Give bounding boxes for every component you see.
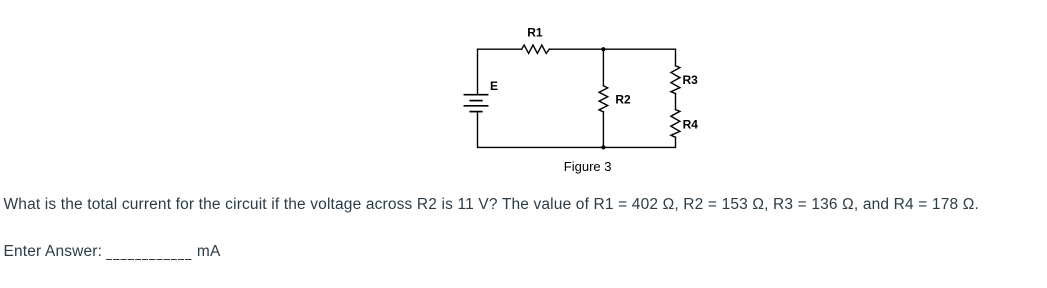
battery E <box>464 95 487 112</box>
node A junction dot <box>601 47 605 51</box>
wire R4 bottom to bottom-right corner to node B <box>603 137 675 147</box>
node B junction dot <box>601 145 605 149</box>
resistor R1 <box>522 45 550 53</box>
svg-text:R4: R4 <box>683 117 699 131</box>
resistor R3 <box>671 66 680 94</box>
wire R1 right terminal to node A <box>549 48 603 50</box>
answer blank line <box>106 259 192 261</box>
wire node A down to R2 top terminal <box>602 49 604 85</box>
svg-text:E: E <box>490 79 498 93</box>
svg-text:R2: R2 <box>615 93 631 107</box>
svg-text:R1: R1 <box>527 25 543 39</box>
question text <box>4 196 979 213</box>
wire battery - to bottom-left corner to node B <box>478 112 604 147</box>
resistor R4 <box>671 110 680 138</box>
wire node A to top-right corner <box>603 49 675 66</box>
wire R2 bottom terminal to node B <box>602 112 604 147</box>
answer unit mA <box>197 243 221 260</box>
circuit schematic figure <box>0 0 1047 185</box>
resistor R2 <box>599 86 608 112</box>
wire R3 bottom to R4 top <box>675 94 677 110</box>
svg-text:Figure 3: Figure 3 <box>564 159 612 174</box>
svg-text:R3: R3 <box>683 73 699 87</box>
wire top-left (battery + to R1 left terminal) <box>478 49 522 94</box>
answer prompt <box>4 243 103 260</box>
